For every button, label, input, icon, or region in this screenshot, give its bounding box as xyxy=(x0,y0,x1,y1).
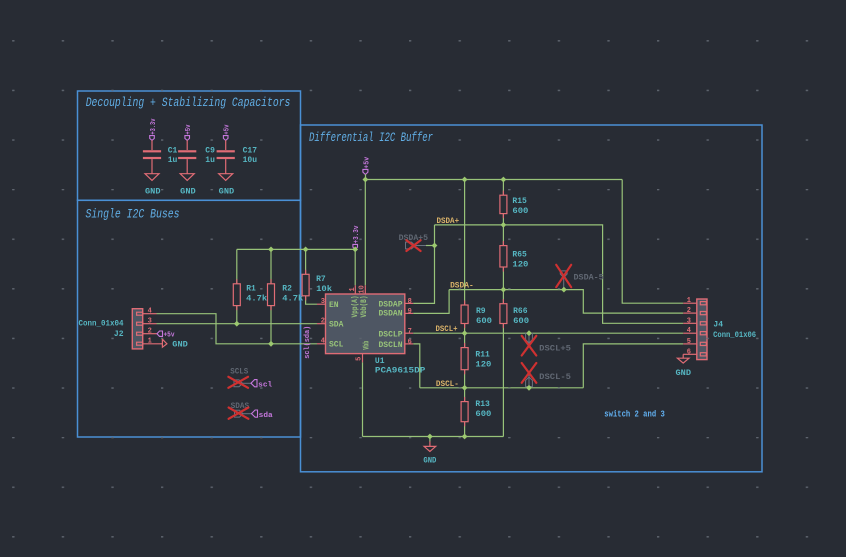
wire: +5v rail xyxy=(366,179,623,181)
ground at C1 xyxy=(145,174,161,197)
capacitor C17 xyxy=(217,140,235,174)
U1 pin 7 DSCLP xyxy=(405,332,413,334)
U1 pin 2 SDA xyxy=(317,323,326,325)
wire: R9 column from rail xyxy=(464,180,466,306)
wire: DSCL+ line xyxy=(413,332,683,334)
power +3.3v above pullup rail xyxy=(353,225,361,250)
power +3.3v at C1 xyxy=(150,118,158,140)
J4 pin 5 xyxy=(683,343,697,345)
wire: R13 bottom xyxy=(464,422,466,437)
wire: DSDA- line xyxy=(449,290,683,314)
wire: SDA from J2.3 to U1 xyxy=(157,323,318,325)
power +5v at C9 xyxy=(185,124,193,140)
connector J2 body xyxy=(132,309,142,349)
resistor R11 xyxy=(461,348,468,370)
ground at GND rail xyxy=(423,437,436,466)
op-amp U1 body xyxy=(326,294,405,354)
wire: R11 top xyxy=(464,333,466,347)
U1 pin 3 EN xyxy=(317,303,326,305)
junction R15 top rail xyxy=(501,177,507,183)
power +5v at C17 xyxy=(223,124,231,140)
junction DSDA- R65/R66 xyxy=(501,287,507,293)
wire: U1 pin8 to DSDA+ xyxy=(413,225,434,304)
junction R9 column rail xyxy=(462,177,468,183)
wire: R9 bottom xyxy=(464,324,466,334)
wire: R65 bottom xyxy=(502,267,504,290)
J4 pin 6 xyxy=(683,353,697,355)
junction DSCL+5 stub xyxy=(526,330,532,336)
junction GND symbol xyxy=(427,434,433,440)
wire: R66 bottom to GND rail xyxy=(502,324,504,437)
label SDAS (DNP) xyxy=(229,401,252,419)
wire: +5v rail down to J4 pin1 xyxy=(622,180,683,304)
junction +3.3v rail end xyxy=(352,247,358,253)
resistor R9 xyxy=(461,305,468,324)
wire: R15 bottom xyxy=(502,214,504,225)
resistor R1 xyxy=(233,284,240,306)
J2 pin 3 xyxy=(143,323,157,325)
junction R2 bottom SCL xyxy=(268,341,274,347)
wire: R65 top xyxy=(502,225,504,246)
wire: U1 pin6 to DSCL- xyxy=(413,344,420,388)
wire: +3.3v drop to U1 pin 1 xyxy=(354,249,356,285)
wire: +5v drop to U1 pin 10 xyxy=(364,180,366,286)
resistor R2 xyxy=(268,284,275,306)
wire: R1 bottom xyxy=(236,306,238,324)
resistor R65 xyxy=(500,246,507,267)
U1 pin 8 DSDAP xyxy=(405,302,413,304)
ground at C17 xyxy=(219,174,235,197)
wire: R2 top xyxy=(270,249,272,283)
sheet box: Single I2C Buses xyxy=(78,200,301,437)
sheet box: Differential I2C Buffer xyxy=(301,125,763,472)
J4 pin 4 xyxy=(683,332,697,334)
connector J4 body xyxy=(697,299,707,360)
junction DSDA+ R15/R65 xyxy=(501,222,507,228)
J2 pin 2 xyxy=(143,333,157,335)
no-connect DSCL+5 xyxy=(522,333,571,355)
U1 pin 6 DSCLN xyxy=(405,343,413,345)
wire: R1 top xyxy=(236,249,238,283)
resistor R15 xyxy=(500,195,507,213)
junction DSCL-5 stub xyxy=(526,385,532,391)
label SCLS (DNP) xyxy=(228,367,251,388)
junction DSCL+ R9/R11 xyxy=(462,330,468,336)
J2 pin 1 xyxy=(143,343,163,345)
sheet box: Decoupling + Stabilizing Capacitors xyxy=(78,91,301,200)
wire: R7 top xyxy=(305,249,307,274)
power +5v top xyxy=(363,156,372,180)
wire: R11 bottom xyxy=(464,370,466,388)
no-connect DSCL-5 xyxy=(522,363,571,388)
junction R13 bottom xyxy=(462,434,468,440)
J4 pin 1 xyxy=(683,302,697,304)
junction R1 bottom SDA xyxy=(234,321,240,327)
U1 pin 9 DSDAN xyxy=(405,312,413,314)
wire: R2 bottom xyxy=(270,306,272,344)
wire: R15 top xyxy=(502,180,504,196)
ground at J4 pin 6 xyxy=(676,354,692,378)
resistor R66 xyxy=(500,304,507,324)
ground at C9 xyxy=(180,174,196,197)
U1 pin 1 Vpp(A) xyxy=(354,285,356,294)
power +5v at J2 pin 2 xyxy=(157,331,175,340)
U1 pin 4 SCL xyxy=(317,343,326,345)
wire: GND rail xyxy=(363,436,504,438)
resistor R13 xyxy=(461,402,468,422)
U1 pin 10 Vbb(B) xyxy=(364,285,366,294)
junction R2 top xyxy=(268,247,274,253)
wire: pullup rail xyxy=(237,248,355,250)
ground at J2 pin 1 xyxy=(162,339,188,349)
resistor pin stubs xyxy=(237,191,504,427)
wire: DSCL- line xyxy=(420,387,584,389)
no-connect DSDA-5 xyxy=(556,265,604,288)
hierarchical label sda xyxy=(252,410,274,420)
junction DSDA-5 stub xyxy=(561,287,567,293)
wire: R66 top xyxy=(502,290,504,304)
junction dots xyxy=(234,177,567,440)
junction DSDA+5 stub xyxy=(432,243,438,249)
wire: U1 pin9 to DSDA- xyxy=(413,290,449,314)
hierarchical label scl xyxy=(251,380,272,390)
junction DSCL- R11/R13 xyxy=(462,385,468,391)
capacitor C9 xyxy=(178,140,196,174)
J2 pin 4 xyxy=(143,313,157,315)
J4 pin 3 xyxy=(683,322,697,324)
junction +5v symbol xyxy=(363,177,369,183)
no-connect DSDA+5 xyxy=(399,233,435,251)
junction R7 top xyxy=(303,247,309,253)
wire: DSDA+ line xyxy=(435,225,684,323)
J4 pin 2 xyxy=(683,312,697,314)
wire: J4 pin5 to DSCL- xyxy=(583,344,683,388)
U1 pin 5 Vbb xyxy=(362,354,364,363)
wire: U1 pin5 down xyxy=(362,362,364,436)
resistor R7 xyxy=(302,274,309,296)
wire: R13 top xyxy=(464,388,466,402)
wire: SCL from J2.4 to U1 xyxy=(157,314,318,344)
wire: R7 bottom to EN xyxy=(306,296,317,304)
capacitor C1 xyxy=(143,140,161,174)
